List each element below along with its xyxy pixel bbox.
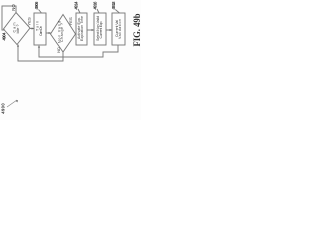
svg-text:4916: 4916	[93, 1, 98, 10]
svg-text:Idle ?: Idle ?	[16, 25, 20, 34]
svg-text:Cam On: Cam On	[39, 26, 43, 36]
svg-text:Expiration Time: Expiration Time	[80, 16, 84, 41]
svg-text:4914: 4914	[74, 1, 79, 10]
svg-text:4918: 4918	[111, 1, 116, 10]
svg-text:NO: NO	[56, 47, 61, 53]
svg-text:YES: YES	[68, 17, 73, 26]
svg-text:NO: NO	[11, 3, 16, 10]
svg-text:FIG. 49b: FIG. 49b	[133, 14, 141, 47]
svg-text:Current Exp: Current Exp	[99, 22, 103, 39]
svg-text:Change ?: Change ?	[60, 23, 64, 42]
svg-text:4904: 4904	[2, 32, 7, 41]
svg-text:4906: 4906	[34, 1, 39, 10]
svg-text:Validation: Validation	[118, 19, 122, 39]
svg-text:4900: 4900	[1, 103, 6, 114]
svg-text:YES: YES	[27, 17, 32, 26]
